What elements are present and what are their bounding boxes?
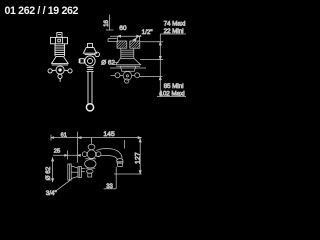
- mounting face line: [110, 67, 146, 69]
- svg-text:3/4": 3/4": [46, 190, 57, 197]
- valve V1 cap: [51, 37, 68, 43]
- column C1 round body: [85, 56, 95, 66]
- column C1 side knob: [94, 52, 99, 57]
- column C1 left port: [79, 59, 84, 63]
- dim 25: [53, 148, 81, 159]
- valve V1 bell escutcheon: [52, 56, 68, 65]
- label 85 Mini / 102 Maxi: [159, 83, 184, 98]
- handle H1 front view: [111, 72, 140, 84]
- wall reference line: [140, 41, 160, 43]
- valve V1 ribbed stem: [55, 44, 65, 56]
- dim 127 vertical: [135, 139, 142, 174]
- dim 33: [104, 167, 117, 190]
- svg-text:25: 25: [54, 148, 60, 154]
- union U1 inlet tube: [108, 39, 117, 42]
- column C1 end ring: [86, 104, 93, 111]
- label 3/4 inch: [46, 179, 71, 197]
- svg-text:1/2": 1/2": [142, 29, 153, 36]
- svg-text:127: 127: [135, 152, 142, 164]
- valve V1 cross handle: [48, 66, 72, 79]
- svg-text:145: 145: [103, 131, 115, 138]
- bottom reference line: [114, 173, 142, 175]
- union U1 threaded stem: [121, 48, 134, 58]
- column C1 supply pipe: [88, 72, 92, 104]
- column C1 neck rings: [87, 67, 94, 71]
- label 1/2 inch: [133, 29, 153, 41]
- aerator plane line: [140, 59, 162, 61]
- valve V1 finial: [57, 33, 62, 38]
- spout tip extension line: [124, 140, 126, 149]
- svg-text:Ø 62: Ø 62: [101, 59, 115, 66]
- valve V2 stem line: [91, 138, 93, 145]
- flange F1 bell: [71, 166, 78, 179]
- valve V2 lower cap: [87, 169, 94, 177]
- svg-text:22 Mini: 22 Mini: [164, 28, 184, 35]
- valve V2 body: [85, 159, 96, 168]
- flange F1 union nut: [78, 167, 85, 178]
- dim column right: [157, 34, 186, 96]
- spout S1 bottom profile: [97, 155, 118, 159]
- wall extension line: [77, 132, 79, 163]
- escutcheon bell E1: [116, 58, 141, 66]
- dim Ø62 vertical: [45, 158, 53, 182]
- valve V1 tail: [59, 79, 61, 82]
- svg-text:61: 61: [61, 132, 67, 138]
- column C1 cap flare: [83, 48, 96, 55]
- label Ø62 top: [101, 59, 118, 66]
- union U1 hatched body: [117, 41, 140, 48]
- dim line 61/145: [51, 135, 141, 141]
- dim 16 extension line: [106, 15, 114, 31]
- svg-text:102 Maxi: 102 Maxi: [159, 91, 184, 98]
- spout S1 aerator: [117, 159, 123, 167]
- spout S1 top profile: [96, 148, 122, 158]
- flange F1 face plate: [68, 164, 71, 180]
- svg-text:74 Maxi: 74 Maxi: [164, 21, 186, 28]
- valve V2 top knob: [88, 144, 95, 149]
- svg-text:85 Mini: 85 Mini: [164, 83, 184, 90]
- svg-text:Ø 62: Ø 62: [45, 166, 52, 180]
- svg-text:33: 33: [106, 184, 113, 190]
- label 74 Maxi / 22 Mini: [164, 21, 186, 35]
- handle plane line: [140, 76, 163, 78]
- column C1 finial: [88, 43, 93, 47]
- escutcheon nut: [120, 66, 136, 71]
- svg-text:01 262 / / 19 262: 01 262 / / 19 262: [5, 5, 79, 17]
- svg-text:60: 60: [119, 25, 127, 32]
- dim 60 line: [110, 35, 141, 41]
- svg-text:16: 16: [104, 19, 110, 26]
- valve V2 cross bar: [82, 150, 101, 159]
